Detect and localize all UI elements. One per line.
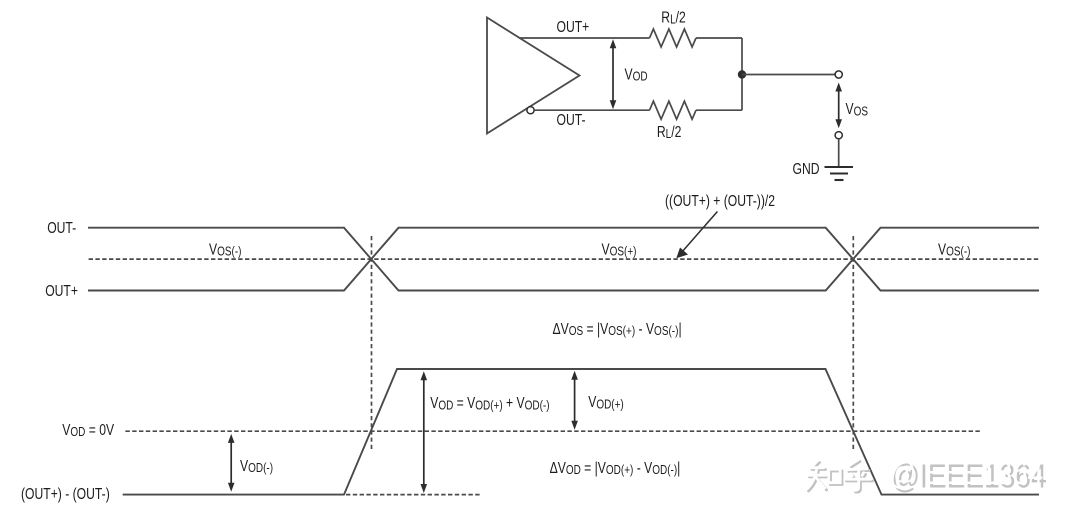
- annotation arrow to centre line: [682, 212, 718, 253]
- arrow VOD(-): [230, 441, 232, 484]
- wire top resistor to node: [696, 37, 742, 39]
- terminal (upper, VOS+): [835, 71, 842, 78]
- arrow VOD(+): [574, 378, 576, 422]
- dashed common-mode centre line: [89, 258, 1040, 260]
- wire bottom resistor to node: [696, 109, 742, 111]
- resistor RL/2 (bottom): [650, 101, 697, 119]
- waveform (OUT+)-(OUT-) trace: [123, 369, 1039, 495]
- junction node dot: [738, 70, 746, 78]
- op-amp driver U1: [487, 18, 580, 134]
- svg-text:@IEEE1364: @IEEE1364: [888, 454, 1043, 492]
- svg-text:VOD = 0V: VOD = 0V: [62, 420, 114, 439]
- svg-text:RL/2: RL/2: [661, 8, 686, 27]
- svg-text:ΔVOS = |VOS(+) - VOS(-)|: ΔVOS = |VOS(+) - VOS(-)|: [553, 319, 682, 338]
- dashed low-level extension: [346, 494, 480, 496]
- inverting output bubble: [527, 107, 534, 114]
- svg-text:VOS(+): VOS(+): [602, 240, 637, 259]
- dashed VOD=0V line: [125, 430, 980, 432]
- svg-text:OUT+: OUT+: [45, 281, 78, 299]
- wire node to VOS terminal: [742, 74, 835, 76]
- wire vertical load centre tap: [741, 38, 743, 110]
- waveform OUT- trace: [88, 228, 1039, 291]
- arrow VOD total: [423, 379, 425, 486]
- svg-text:VOS: VOS: [846, 100, 869, 119]
- svg-text:OUT-: OUT-: [47, 219, 76, 237]
- svg-text:ΔVOD = |VOD(+) - VOD(-)|: ΔVOD = |VOD(+) - VOD(-)|: [550, 459, 681, 478]
- svg-text:VOD: VOD: [625, 65, 648, 84]
- svg-text:VOS(-): VOS(-): [938, 240, 971, 259]
- dashed vertical crossover line 1: [371, 236, 373, 451]
- svg-text:OUT+: OUT+: [557, 17, 590, 35]
- watermark 知乎 @IEEE1364: [807, 454, 1047, 496]
- svg-text:VOS(-): VOS(-): [209, 240, 242, 259]
- arrow VOD (circuit): [612, 47, 614, 102]
- wire OUT-: [534, 109, 649, 111]
- svg-text:RL/2: RL/2: [657, 123, 682, 142]
- ground symbol: [825, 167, 854, 180]
- svg-text:((OUT+) + (OUT-))/2: ((OUT+) + (OUT-))/2: [665, 192, 775, 210]
- wire OUT+: [519, 37, 650, 39]
- svg-text:VOD(+): VOD(+): [588, 393, 624, 412]
- svg-text:GND: GND: [793, 160, 820, 178]
- wire terminal to ground: [838, 139, 840, 167]
- terminal (lower, ground side): [835, 132, 842, 139]
- waveform OUT+ trace: [88, 228, 1039, 291]
- arrow VOS: [838, 90, 840, 121]
- svg-text:VOD(-): VOD(-): [240, 457, 273, 476]
- svg-text:OUT-: OUT-: [557, 111, 586, 129]
- svg-text:VOD = VOD(+) + VOD(-): VOD = VOD(+) + VOD(-): [430, 394, 550, 413]
- resistor RL/2 (top): [650, 29, 697, 47]
- svg-text:(OUT+) - (OUT-): (OUT+) - (OUT-): [21, 484, 110, 502]
- dashed vertical crossover line 2: [852, 236, 854, 451]
